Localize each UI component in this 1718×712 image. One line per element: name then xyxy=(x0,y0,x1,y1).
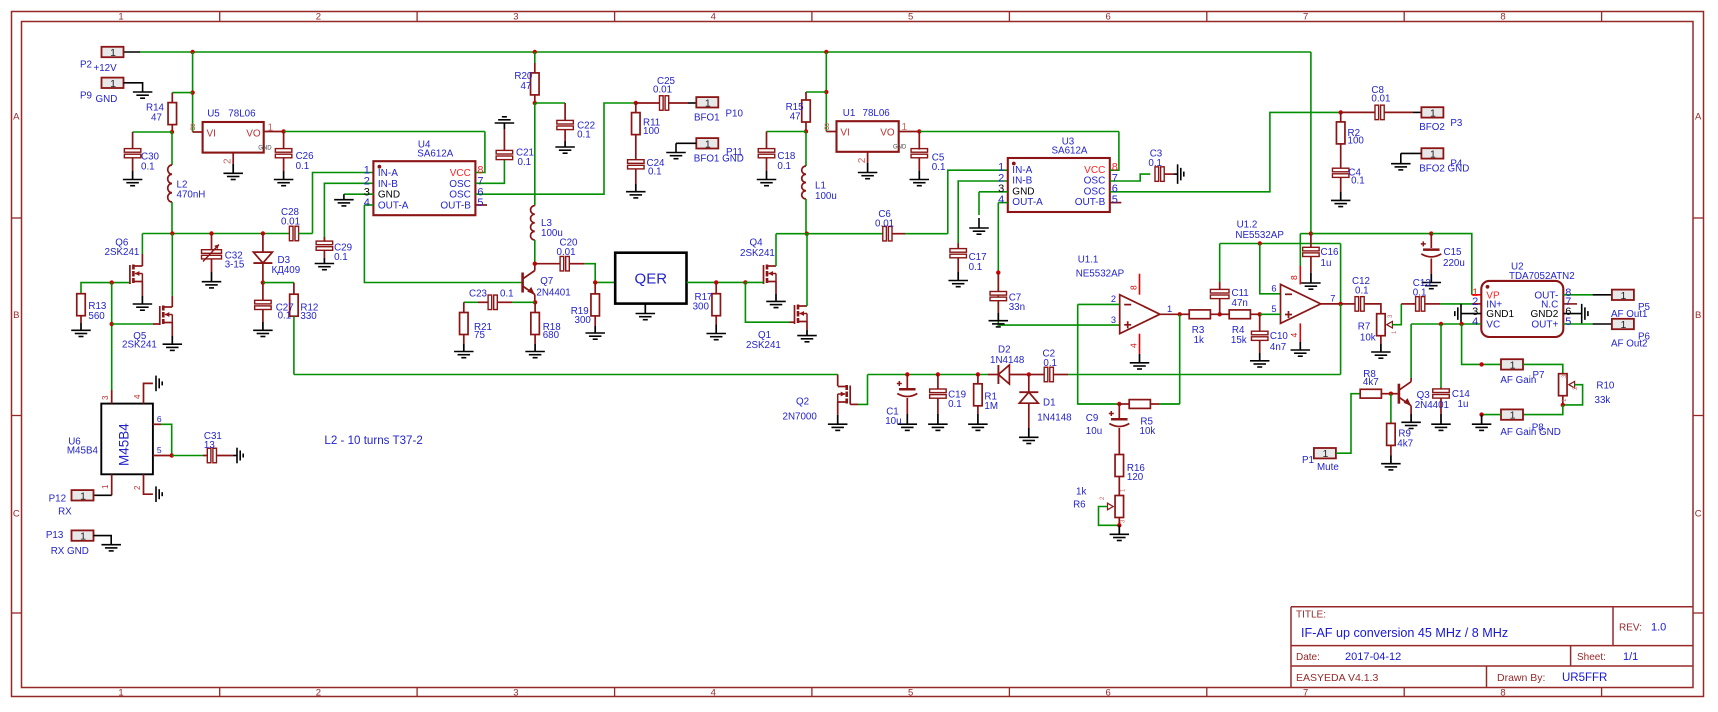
svg-text:1: 1 xyxy=(1620,290,1626,302)
svg-text:OSC: OSC xyxy=(449,179,471,190)
svg-text:300: 300 xyxy=(693,301,710,312)
svg-text:VO: VO xyxy=(880,128,895,139)
svg-text:0.1: 0.1 xyxy=(1413,287,1427,298)
svg-text:B: B xyxy=(13,310,19,321)
svg-text:1: 1 xyxy=(1430,107,1436,119)
svg-text:SA612A: SA612A xyxy=(417,149,453,160)
svg-text:IN-B: IN-B xyxy=(378,179,398,190)
svg-text:OSC: OSC xyxy=(1084,186,1106,197)
svg-text:P9: P9 xyxy=(80,90,92,101)
svg-text:C23: C23 xyxy=(469,289,488,300)
svg-text:4: 4 xyxy=(1128,343,1138,348)
svg-text:P5: P5 xyxy=(1638,302,1651,313)
svg-text:P2: P2 xyxy=(80,59,92,70)
svg-text:10k: 10k xyxy=(1140,426,1156,437)
svg-text:0.1: 0.1 xyxy=(932,162,946,173)
svg-text:78L06: 78L06 xyxy=(228,109,256,120)
svg-text:VI: VI xyxy=(840,128,849,139)
svg-text:470nH: 470nH xyxy=(177,189,206,200)
svg-text:1: 1 xyxy=(268,123,274,134)
svg-text:4: 4 xyxy=(1289,333,1299,338)
svg-text:8: 8 xyxy=(1500,687,1505,698)
svg-text:2N4401: 2N4401 xyxy=(536,288,570,299)
svg-text:IN-A: IN-A xyxy=(378,168,398,179)
svg-text:5: 5 xyxy=(908,12,913,23)
svg-text:GND2: GND2 xyxy=(1531,309,1559,320)
svg-text:GND1: GND1 xyxy=(1486,309,1514,320)
svg-text:0.01: 0.01 xyxy=(557,247,576,258)
svg-text:5: 5 xyxy=(1565,316,1571,328)
svg-text:RX GND: RX GND xyxy=(51,546,89,557)
svg-text:1: 1 xyxy=(1510,410,1516,422)
svg-text:VCC: VCC xyxy=(1084,165,1105,176)
svg-text:3-15: 3-15 xyxy=(225,260,245,271)
svg-text:0.1: 0.1 xyxy=(777,161,791,172)
svg-text:U5: U5 xyxy=(207,109,220,120)
svg-text:IN-A: IN-A xyxy=(1012,165,1032,176)
svg-text:2SK241: 2SK241 xyxy=(105,247,140,258)
svg-text:1M: 1M xyxy=(984,401,998,412)
svg-text:0.01: 0.01 xyxy=(653,85,672,96)
svg-text:6: 6 xyxy=(157,414,162,424)
svg-text:OUT-B: OUT-B xyxy=(1075,197,1106,208)
svg-text:C: C xyxy=(13,508,20,519)
svg-text:+12V: +12V xyxy=(94,63,118,74)
svg-text:0.1: 0.1 xyxy=(334,252,348,263)
svg-text:0.1: 0.1 xyxy=(141,162,155,173)
svg-text:R10: R10 xyxy=(1596,380,1615,391)
svg-text:2SK241: 2SK241 xyxy=(740,248,775,259)
svg-text:GND: GND xyxy=(258,145,272,151)
svg-text:1: 1 xyxy=(118,12,123,23)
svg-text:L2 - 10 turns T37-2: L2 - 10 turns T37-2 xyxy=(324,434,422,447)
svg-text:1u: 1u xyxy=(1458,399,1469,410)
svg-text:8: 8 xyxy=(1289,275,1299,280)
svg-text:13: 13 xyxy=(204,440,215,451)
svg-text:C16: C16 xyxy=(1321,247,1340,258)
svg-text:C9: C9 xyxy=(1086,413,1099,424)
svg-text:5: 5 xyxy=(1112,194,1118,206)
svg-text:15k: 15k xyxy=(1231,335,1247,346)
svg-text:220u: 220u xyxy=(1443,258,1465,269)
svg-text:OUT-A: OUT-A xyxy=(1012,197,1043,208)
svg-text:P7: P7 xyxy=(1533,370,1545,381)
svg-text:300: 300 xyxy=(575,315,592,326)
svg-text:2017-04-12: 2017-04-12 xyxy=(1345,651,1401,663)
svg-text:OSC: OSC xyxy=(449,190,471,201)
svg-text:OUT+: OUT+ xyxy=(1531,320,1558,331)
svg-text:2SK241: 2SK241 xyxy=(122,340,157,351)
svg-text:0.01: 0.01 xyxy=(875,219,894,230)
svg-text:U1.1: U1.1 xyxy=(1078,255,1099,266)
svg-text:0.1: 0.1 xyxy=(1148,158,1162,169)
svg-text:OSC: OSC xyxy=(1084,176,1106,187)
svg-text:7: 7 xyxy=(1330,293,1335,303)
svg-text:0.1: 0.1 xyxy=(1355,285,1369,296)
svg-text:4: 4 xyxy=(711,12,716,23)
svg-text:1u: 1u xyxy=(1321,258,1332,269)
svg-text:4k7: 4k7 xyxy=(1363,377,1379,388)
svg-text:1: 1 xyxy=(110,47,116,59)
svg-text:VCC: VCC xyxy=(450,168,471,179)
svg-text:33n: 33n xyxy=(1009,302,1025,313)
svg-text:RX: RX xyxy=(58,506,72,517)
svg-text:330: 330 xyxy=(300,311,317,322)
svg-text:R7: R7 xyxy=(1358,322,1371,333)
svg-text:A: A xyxy=(13,111,20,122)
svg-text:REV:: REV: xyxy=(1619,623,1642,634)
svg-text:Date:: Date: xyxy=(1296,652,1320,663)
svg-text:47: 47 xyxy=(151,112,162,123)
svg-text:Sheet:: Sheet: xyxy=(1577,652,1606,663)
svg-text:1: 1 xyxy=(1430,148,1436,160)
svg-text:1: 1 xyxy=(705,138,711,150)
svg-text:2: 2 xyxy=(316,687,321,698)
svg-text:0.1: 0.1 xyxy=(278,310,292,321)
svg-text:1: 1 xyxy=(1620,319,1626,331)
svg-text:10k: 10k xyxy=(1360,333,1376,344)
svg-text:C: C xyxy=(1695,508,1702,519)
svg-text:P13: P13 xyxy=(46,530,64,541)
svg-text:8: 8 xyxy=(190,123,196,134)
svg-text:0.01: 0.01 xyxy=(281,216,300,227)
svg-text:680: 680 xyxy=(543,330,560,341)
svg-text:4: 4 xyxy=(133,394,142,399)
svg-text:2N7000: 2N7000 xyxy=(783,412,818,423)
svg-text:1: 1 xyxy=(101,484,110,489)
svg-text:560: 560 xyxy=(88,311,105,322)
svg-text:GND: GND xyxy=(378,190,400,201)
svg-text:1: 1 xyxy=(1167,304,1172,314)
svg-text:IF-AF up conversion 45 MHz / 8: IF-AF up conversion 45 MHz / 8 MHz xyxy=(1301,626,1508,640)
svg-text:0.1: 0.1 xyxy=(1351,175,1365,186)
svg-text:4: 4 xyxy=(1472,316,1478,328)
svg-text:5: 5 xyxy=(908,687,913,698)
svg-text:3: 3 xyxy=(1111,315,1116,325)
svg-text:4: 4 xyxy=(364,197,370,209)
svg-text:0.1: 0.1 xyxy=(296,161,310,172)
svg-text:OUT-A: OUT-A xyxy=(378,200,409,211)
svg-text:NE5532AP: NE5532AP xyxy=(1235,230,1284,241)
svg-text:4: 4 xyxy=(711,687,716,698)
svg-text:120: 120 xyxy=(1127,472,1144,483)
svg-text:P3: P3 xyxy=(1450,118,1463,129)
svg-text:VO: VO xyxy=(246,128,261,139)
svg-text:Q7: Q7 xyxy=(540,276,553,287)
svg-text:4k7: 4k7 xyxy=(1397,439,1413,450)
svg-text:VI: VI xyxy=(207,128,216,139)
svg-text:C15: C15 xyxy=(1444,247,1463,258)
svg-text:1: 1 xyxy=(705,97,711,109)
svg-text:P10: P10 xyxy=(726,108,744,119)
svg-text:QER: QER xyxy=(635,271,668,288)
svg-text:47: 47 xyxy=(790,111,801,122)
svg-text:1/1: 1/1 xyxy=(1623,651,1638,663)
svg-text:Q2: Q2 xyxy=(796,397,809,408)
svg-text:2: 2 xyxy=(223,158,234,164)
svg-text:M45B4: M45B4 xyxy=(117,423,132,466)
svg-text:GND: GND xyxy=(1012,186,1034,197)
svg-text:КД409: КД409 xyxy=(272,265,301,276)
svg-text:1: 1 xyxy=(80,531,86,543)
svg-text:EASYEDA V4.1.3: EASYEDA V4.1.3 xyxy=(1296,672,1378,684)
svg-text:6: 6 xyxy=(1105,687,1110,698)
svg-text:4n7: 4n7 xyxy=(1270,342,1286,353)
svg-text:6: 6 xyxy=(1271,283,1276,293)
svg-text:2: 2 xyxy=(316,12,321,23)
svg-text:D1: D1 xyxy=(1043,398,1056,409)
svg-text:0.01: 0.01 xyxy=(1371,94,1390,105)
svg-text:1N4148: 1N4148 xyxy=(1037,413,1072,424)
svg-text:0.1: 0.1 xyxy=(577,130,591,141)
svg-text:M45B4: M45B4 xyxy=(67,446,99,457)
svg-text:10u: 10u xyxy=(1086,426,1102,437)
svg-text:100: 100 xyxy=(643,126,660,137)
svg-text:1: 1 xyxy=(110,78,116,90)
svg-text:Mute: Mute xyxy=(1317,462,1339,473)
svg-text:100: 100 xyxy=(1348,135,1365,146)
svg-text:2SK241: 2SK241 xyxy=(746,340,781,351)
svg-text:0.1: 0.1 xyxy=(948,399,962,410)
svg-text:5: 5 xyxy=(157,445,162,455)
svg-text:GND: GND xyxy=(96,94,118,105)
svg-text:8: 8 xyxy=(1500,12,1505,23)
svg-text:4: 4 xyxy=(998,194,1004,206)
svg-text:1: 1 xyxy=(1510,359,1516,371)
svg-text:UR5FFR: UR5FFR xyxy=(1562,672,1607,684)
svg-text:75: 75 xyxy=(474,330,485,341)
svg-text:C10: C10 xyxy=(1270,331,1289,342)
svg-text:P8: P8 xyxy=(1532,423,1545,434)
svg-text:7: 7 xyxy=(1303,12,1308,23)
svg-text:AF Gain GND: AF Gain GND xyxy=(1500,427,1560,438)
svg-text:VC: VC xyxy=(1486,320,1500,331)
svg-text:A: A xyxy=(1695,111,1702,122)
svg-text:47: 47 xyxy=(521,81,532,92)
svg-text:0.1: 0.1 xyxy=(518,157,532,168)
svg-text:P4: P4 xyxy=(1450,159,1463,170)
svg-text:100u: 100u xyxy=(815,191,837,202)
svg-text:OUT-B: OUT-B xyxy=(440,200,471,211)
svg-text:1: 1 xyxy=(1322,448,1328,460)
svg-text:6: 6 xyxy=(1105,12,1110,23)
svg-text:47n: 47n xyxy=(1232,298,1248,309)
svg-text:1.0: 1.0 xyxy=(1651,622,1666,634)
svg-text:2: 2 xyxy=(1111,294,1116,304)
svg-text:TDA7052ATN2: TDA7052ATN2 xyxy=(1509,271,1575,282)
svg-text:3: 3 xyxy=(513,12,518,23)
svg-text:R6: R6 xyxy=(1073,500,1086,511)
svg-text:8: 8 xyxy=(824,122,830,133)
svg-text:0.1: 0.1 xyxy=(500,289,514,300)
svg-text:NE5532AP: NE5532AP xyxy=(1076,269,1125,280)
svg-text:0.1: 0.1 xyxy=(969,262,983,273)
svg-text:Drawn By:: Drawn By: xyxy=(1497,672,1545,684)
svg-text:P11: P11 xyxy=(726,147,743,158)
svg-text:1: 1 xyxy=(118,687,123,698)
svg-text:U1: U1 xyxy=(843,108,856,119)
svg-text:B: B xyxy=(1695,310,1701,321)
svg-text:TITLE:: TITLE: xyxy=(1296,610,1326,621)
svg-text:2: 2 xyxy=(857,157,868,163)
svg-text:3: 3 xyxy=(101,395,110,400)
svg-text:5: 5 xyxy=(477,197,483,209)
svg-text:1k: 1k xyxy=(1194,335,1204,346)
svg-text:33k: 33k xyxy=(1595,395,1611,406)
svg-text:BFO1: BFO1 xyxy=(694,113,720,124)
svg-text:BFO2: BFO2 xyxy=(1419,122,1445,133)
svg-text:1: 1 xyxy=(80,490,86,502)
svg-text:5: 5 xyxy=(1271,304,1276,314)
svg-text:10u: 10u xyxy=(885,416,901,427)
svg-text:1N4148: 1N4148 xyxy=(990,355,1025,366)
svg-text:2N4401: 2N4401 xyxy=(1415,400,1449,411)
svg-text:0.1: 0.1 xyxy=(648,167,662,178)
svg-text:GND: GND xyxy=(893,145,907,151)
svg-text:3: 3 xyxy=(513,687,518,698)
svg-text:P1: P1 xyxy=(1302,455,1314,466)
svg-text:1k: 1k xyxy=(1076,486,1086,497)
svg-text:1: 1 xyxy=(902,122,908,133)
svg-text:SA612A: SA612A xyxy=(1052,146,1088,157)
svg-text:8: 8 xyxy=(1128,285,1138,290)
svg-text:78L06: 78L06 xyxy=(863,108,891,119)
svg-text:P12: P12 xyxy=(49,494,66,505)
svg-text:2: 2 xyxy=(133,485,142,490)
svg-text:AF Gain: AF Gain xyxy=(1500,375,1536,386)
svg-text:0.1: 0.1 xyxy=(1043,358,1057,369)
svg-text:P6: P6 xyxy=(1638,331,1651,342)
svg-text:IN-B: IN-B xyxy=(1012,176,1032,187)
svg-text:7: 7 xyxy=(1303,687,1308,698)
